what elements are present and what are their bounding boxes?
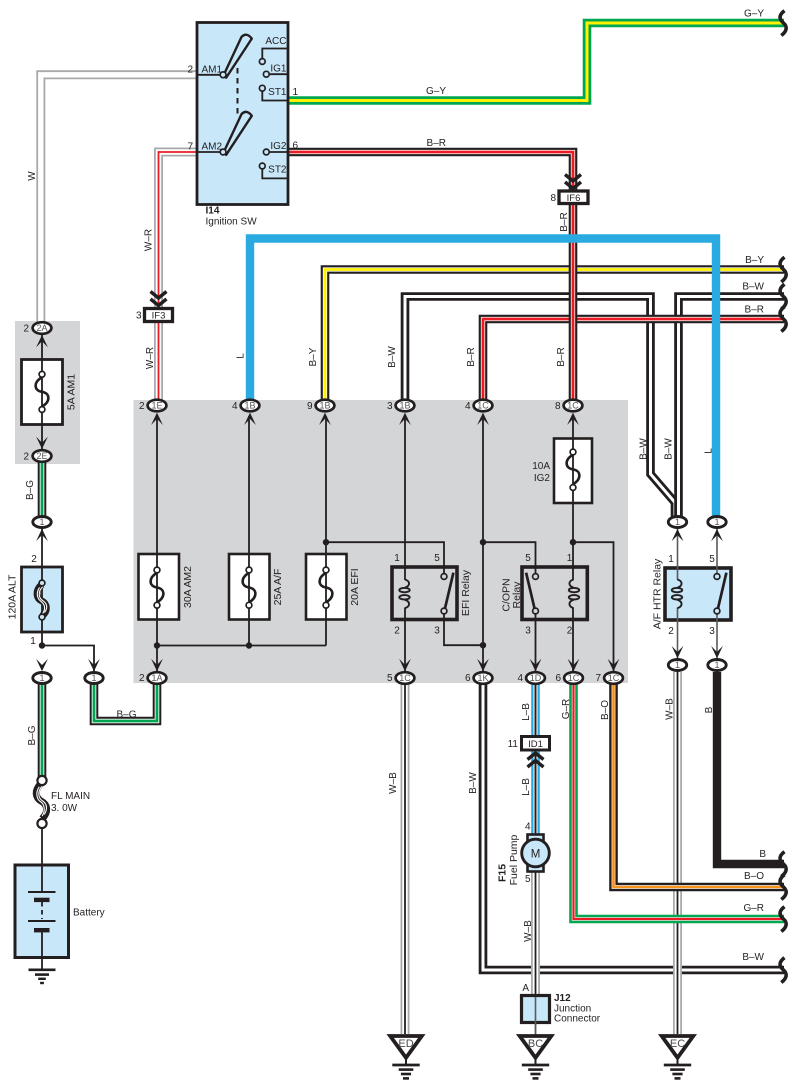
fuse 20A EFI body — [306, 554, 347, 620]
svg-text:5: 5 — [434, 553, 440, 564]
svg-text:G–Y: G–Y — [426, 86, 446, 97]
svg-text:9: 9 — [307, 401, 313, 412]
svg-text:W–R: W–R — [145, 347, 156, 369]
svg-text:6: 6 — [555, 673, 561, 684]
svg-text:1: 1 — [567, 553, 573, 564]
dart into connector 1 above 120A ALT — [36, 529, 48, 541]
wire 9 1B to 20A EFI — [325, 416, 327, 646]
svg-text:J12: J12 — [554, 993, 571, 1004]
svg-text:1: 1 — [39, 517, 44, 527]
svg-text:1C: 1C — [567, 401, 579, 411]
wire B-W (3 1B up and over to A/F HTR relay) — [405, 297, 675, 518]
svg-text:6: 6 — [465, 673, 471, 684]
horizontal wire color labels — [116, 9, 766, 964]
svg-text:B–R: B–R — [556, 347, 567, 366]
svg-text:EC: EC — [670, 1038, 685, 1050]
off-page curl B-W — [780, 284, 786, 309]
svg-text:1: 1 — [30, 636, 36, 647]
fuse 5A AM1 body — [22, 360, 63, 425]
svg-text:3. 0W: 3. 0W — [51, 803, 78, 814]
ground under battery — [29, 970, 56, 983]
wire bus 30A/25A/20A fuse bottoms — [157, 645, 326, 647]
svg-text:2: 2 — [139, 673, 145, 684]
svg-text:10A: 10A — [532, 461, 550, 472]
connector ovals (white "1") — [33, 517, 726, 684]
svg-text:3: 3 — [709, 626, 715, 637]
wire 8 1C to 10A IG2 to C/OPN coil to 6 1C — [572, 416, 574, 580]
darts into A/F HTR relay top connectors — [672, 529, 684, 541]
wire W-R (AM2 to IF3 to 1E) — [159, 152, 198, 400]
ignition contact circles — [220, 59, 269, 169]
svg-text:1B: 1B — [319, 401, 330, 411]
off-page curl B-Y — [780, 257, 786, 282]
svg-text:3: 3 — [434, 626, 440, 637]
svg-text:8: 8 — [550, 193, 556, 204]
chevrons above IF6 — [565, 175, 581, 189]
wire IG2 tap to 7 1C — [573, 542, 614, 671]
switch lever AM2 — [224, 112, 252, 155]
rotated fuse/relay labels — [7, 374, 664, 886]
svg-text:2: 2 — [394, 626, 400, 637]
svg-text:6: 6 — [293, 141, 299, 152]
svg-text:1: 1 — [675, 517, 680, 527]
svg-text:1E: 1E — [151, 401, 162, 411]
svg-text:1: 1 — [668, 554, 674, 565]
darts into top row ovals 1E 1B 1B 1B 1C 1C — [151, 413, 163, 425]
svg-text:W: W — [27, 171, 38, 181]
wire W-B (5 1C to ED ground) — [401, 684, 410, 1034]
ground ED — [390, 1036, 422, 1078]
svg-text:F15: F15 — [497, 864, 509, 882]
fuse element 30A AM2 — [151, 573, 164, 602]
switch lever AM1 — [224, 35, 252, 78]
ignition SW internal: AM2 stub — [197, 151, 221, 153]
svg-text:1C: 1C — [568, 673, 580, 683]
wire B-G (connector 1 to FL MAIN) — [38, 684, 47, 777]
svg-text:1C: 1C — [608, 673, 620, 683]
wire B-W (off-page right to A/F HTR relay) — [679, 297, 785, 518]
fuse/relay block shading (main) — [134, 400, 629, 683]
svg-text:B–W: B–W — [387, 346, 398, 368]
svg-text:A/F HTR Relay: A/F HTR Relay — [652, 558, 664, 629]
wire B-G (2E to connector 1) — [38, 462, 47, 517]
fuel pump motor M — [528, 835, 544, 842]
oval texts — [36, 323, 719, 683]
ignition SW internal: IG2 stub — [269, 151, 288, 153]
EFI relay body — [392, 567, 457, 620]
svg-text:BC: BC — [528, 1038, 543, 1050]
svg-text:1C: 1C — [399, 673, 411, 683]
svg-text:4: 4 — [517, 673, 523, 684]
svg-text:L: L — [236, 353, 247, 359]
svg-text:4: 4 — [465, 401, 471, 412]
wire A/F HTR relay pin3 — [716, 614, 718, 659]
wire EFI relay pin3 to 1K bus — [444, 614, 483, 646]
ignition SW internal: AM1 stub — [197, 74, 221, 76]
svg-text:ED: ED — [398, 1038, 413, 1050]
svg-text:AM1: AM1 — [202, 64, 223, 75]
A/F HTR relay switch — [714, 574, 720, 580]
svg-text:B: B — [759, 849, 766, 860]
fuse 10A IG2 body — [554, 439, 592, 504]
svg-text:1K: 1K — [477, 673, 488, 683]
wire W (AM1 to 2A) — [41, 75, 197, 324]
svg-text:Fuel Pump: Fuel Pump — [508, 834, 520, 885]
svg-text:1B: 1B — [244, 401, 255, 411]
fusible link element 120A ALT — [37, 585, 46, 617]
battery plates symbol — [28, 866, 56, 970]
EFI relay coil — [399, 580, 409, 609]
svg-text:2: 2 — [139, 401, 145, 412]
ignition SW internal: ST2 stub — [262, 169, 288, 179]
darts into bottom row ovals 1A 1C 1K 1D 1C 1C — [151, 659, 163, 671]
wire 20A EFI tap to EFI relay pin5 — [326, 542, 444, 574]
svg-text:5: 5 — [525, 553, 531, 564]
svg-text:B–W: B–W — [664, 438, 675, 460]
svg-text:7: 7 — [187, 142, 193, 153]
svg-text:IG1: IG1 — [270, 64, 287, 75]
svg-text:5A AM1: 5A AM1 — [66, 374, 78, 410]
svg-text:B–R: B–R — [745, 305, 764, 316]
svg-text:5: 5 — [709, 554, 715, 565]
svg-text:G–R: G–R — [743, 903, 764, 914]
wire W-B (A/F HTR relay pin2 to EC ground) — [673, 672, 682, 1034]
C/OPN relay coil — [569, 580, 579, 609]
svg-text:B–R: B–R — [559, 212, 570, 231]
wire 3 1B to EFI relay coil to 5 1C — [404, 416, 406, 580]
fuse 30A AM2 body — [139, 554, 180, 620]
wire G-R (6 1C to right off-page) — [574, 684, 785, 919]
svg-text:B–R: B–R — [466, 347, 477, 366]
ground EC — [662, 1036, 694, 1078]
dashed mechanical link in ignition SW — [237, 68, 239, 115]
svg-text:B–Y: B–Y — [745, 255, 764, 266]
ignition SW terminal texts — [187, 36, 298, 176]
svg-text:1C: 1C — [477, 401, 489, 411]
ignition SW internal: ST1 stub — [262, 91, 288, 101]
svg-text:G–R: G–R — [561, 699, 572, 720]
svg-text:1: 1 — [675, 660, 680, 670]
wire A/F HTR relay pin1 — [677, 528, 679, 580]
svg-text:8: 8 — [555, 401, 561, 412]
svg-text:1: 1 — [39, 673, 44, 683]
wire B-R (IG2 to IF6 to 8 1C) — [288, 152, 573, 400]
fuse element 25A A/F — [243, 573, 256, 602]
ignition SW internal: IG1 stub — [269, 73, 288, 75]
svg-text:1: 1 — [91, 673, 96, 683]
svg-text:B–W: B–W — [639, 438, 650, 460]
ignition switch I14 body — [197, 23, 288, 205]
svg-text:5: 5 — [525, 874, 531, 885]
svg-text:1: 1 — [293, 87, 299, 98]
svg-text:7: 7 — [595, 673, 601, 684]
svg-text:120A ALT: 120A ALT — [7, 574, 19, 619]
chevrons above IF3 — [151, 292, 167, 306]
wire (J12 to BC ground) — [535, 994, 537, 1036]
off-page curl G-Y — [780, 11, 786, 36]
wire through J12 junction connector — [535, 997, 537, 1036]
ground names — [398, 1038, 685, 1050]
wire L-B (4 1D to ID1 to fuel pump) — [531, 684, 540, 837]
svg-text:ST2: ST2 — [268, 165, 287, 176]
wire B-Y (9 1B to right off-page) — [325, 270, 784, 401]
svg-text:4: 4 — [232, 401, 238, 412]
svg-text:20A EFI: 20A EFI — [349, 568, 361, 605]
svg-text:1: 1 — [714, 660, 719, 670]
connector arrows (darts) — [36, 335, 723, 671]
junction dots — [39, 539, 576, 649]
svg-text:ACC: ACC — [265, 36, 286, 47]
ignition SW internal: ACC stub — [262, 49, 288, 60]
fusible link 120A ALT body — [22, 567, 63, 632]
off-page curl B — [780, 852, 786, 877]
wire A/F HTR relay pin5 — [716, 528, 718, 574]
svg-text:IF3: IF3 — [152, 311, 166, 322]
chevrons below ID1 (pointing up) — [528, 753, 544, 767]
svg-text:B–G: B–G — [27, 725, 38, 745]
svg-text:B–W: B–W — [742, 282, 764, 293]
wire connector1 to 120A ALT to junction (internal) — [41, 528, 43, 646]
svg-text:AM2: AM2 — [202, 142, 223, 153]
svg-text:I14: I14 — [206, 206, 220, 217]
svg-text:Battery: Battery — [73, 908, 105, 919]
svg-text:IG2: IG2 — [270, 141, 287, 152]
svg-text:W–R: W–R — [144, 229, 155, 251]
svg-text:B–Y: B–Y — [308, 347, 319, 366]
svg-text:L–B: L–B — [521, 778, 532, 796]
battery body — [15, 865, 69, 958]
svg-text:B–O: B–O — [600, 700, 611, 720]
wire branch at 120A ALT pin1 to right connector 1 — [42, 646, 94, 672]
svg-text:W–B: W–B — [523, 920, 534, 942]
svg-text:2: 2 — [567, 626, 573, 637]
svg-text:2: 2 — [668, 626, 674, 637]
svg-text:B–O: B–O — [744, 871, 764, 882]
svg-text:FL MAIN: FL MAIN — [51, 791, 90, 802]
dart into left connector 1 below 120A ALT — [36, 659, 48, 671]
connector IF3 box — [145, 309, 173, 322]
svg-text:1: 1 — [394, 553, 400, 564]
darts into A/F HTR relay bottom connectors — [672, 646, 684, 658]
wire 4 1C to 6 1K — [482, 416, 484, 671]
fuse 25A A/F body — [229, 554, 270, 620]
off-page curl B-O — [780, 875, 786, 900]
svg-text:4: 4 — [525, 822, 531, 833]
wire W-B (fuel pump to J12) — [531, 870, 540, 996]
A/F HTR relay coil — [672, 580, 682, 609]
svg-text:A: A — [522, 983, 529, 994]
wire 4 1B to 25A A/F — [248, 416, 250, 646]
svg-text:3: 3 — [136, 311, 142, 322]
svg-text:3: 3 — [387, 401, 393, 412]
dart into 2E — [36, 437, 48, 449]
svg-text:2A: 2A — [36, 323, 47, 333]
rotated wire color labels — [25, 171, 715, 942]
fuse element 20A EFI — [320, 573, 333, 602]
svg-text:W–B: W–B — [665, 698, 676, 720]
dart into right connector 1 below 120A ALT — [88, 659, 100, 671]
svg-text:1A: 1A — [151, 673, 162, 683]
EFI relay switch — [441, 574, 447, 580]
svg-text:25A A/F: 25A A/F — [272, 569, 284, 606]
wire 2A to 5A AM1 to 2E (internal) — [41, 334, 43, 450]
fuse element 5A AM1 — [36, 377, 49, 406]
svg-text:Relay: Relay — [511, 581, 523, 609]
wire FL MAIN to battery — [41, 826, 43, 866]
svg-text:EFI Relay: EFI Relay — [460, 569, 472, 616]
svg-text:5: 5 — [387, 673, 393, 684]
svg-text:B: B — [704, 706, 715, 713]
svg-text:ST1: ST1 — [268, 87, 287, 98]
svg-text:1B: 1B — [399, 401, 410, 411]
svg-text:B–R: B–R — [427, 138, 446, 149]
svg-text:ID1: ID1 — [528, 739, 543, 750]
svg-text:2E: 2E — [36, 451, 47, 461]
fuse element 10A IG2 — [567, 455, 580, 484]
svg-text:W–B: W–B — [388, 772, 399, 794]
svg-text:B–W: B–W — [468, 772, 479, 794]
svg-text:B–G: B–G — [25, 480, 36, 500]
svg-text:1: 1 — [714, 517, 719, 527]
junction connector J12 body — [522, 996, 550, 1023]
svg-text:IF6: IF6 — [567, 193, 581, 204]
svg-text:IG2: IG2 — [534, 473, 551, 484]
wire B-W (6 1K to bottom right off-page) — [483, 684, 784, 970]
C/OPN relay switch — [533, 574, 539, 580]
svg-text:2: 2 — [23, 324, 29, 335]
svg-text:M: M — [531, 849, 541, 861]
wire 1K tap to C/OPN relay pin5 — [483, 542, 536, 574]
svg-text:2: 2 — [23, 452, 29, 463]
svg-text:G–Y: G–Y — [744, 9, 764, 20]
wire B-G (connector 1 loop to 2 1A) — [94, 684, 157, 721]
svg-text:3: 3 — [525, 626, 531, 637]
svg-text:30A AM2: 30A AM2 — [182, 566, 194, 608]
svg-text:L: L — [704, 448, 715, 454]
svg-text:B–G: B–G — [116, 710, 136, 721]
connector ovals (thick ring) — [33, 322, 623, 684]
connector IF6 box — [559, 191, 588, 204]
C/OPN relay body — [522, 567, 587, 620]
A/F HTR relay body — [665, 568, 731, 620]
wire B-O (7 1C to right off-page) — [614, 684, 785, 887]
svg-text:Ignition SW: Ignition SW — [206, 217, 258, 228]
wire C/OPN relay pin3 to 4 1D — [535, 614, 537, 672]
off-page curl B-W bottom — [780, 958, 786, 983]
ground BC — [520, 1036, 552, 1078]
connector number labels (top row) — [23, 193, 715, 994]
svg-text:B–W: B–W — [742, 952, 764, 963]
connector ID1 box — [522, 737, 550, 751]
wire G-Y (ST1 to top right off-page) — [288, 23, 784, 101]
wire 1E to 30A AM2 to 2 1A — [156, 416, 158, 671]
off-page curl G-R — [780, 907, 786, 932]
fuse block shading (left, 5A AM1) — [15, 321, 80, 464]
svg-text:L–B: L–B — [521, 703, 532, 721]
svg-text:1D: 1D — [530, 673, 542, 683]
wire L (thick blue, to 4 1B and A/F HTR relay) — [250, 239, 716, 518]
svg-text:Connector: Connector — [554, 1014, 601, 1025]
svg-text:11: 11 — [508, 739, 519, 750]
wire B-R (4 1C to right off-page) — [483, 319, 784, 400]
fusible link element FL MAIN — [36, 783, 46, 819]
off-page curl B-R — [780, 307, 786, 332]
svg-text:2: 2 — [31, 554, 37, 565]
dart into 2A — [36, 335, 48, 347]
svg-text:2: 2 — [187, 64, 193, 75]
wire B (A/F HTR relay pin3 to right off-page) — [717, 672, 784, 864]
